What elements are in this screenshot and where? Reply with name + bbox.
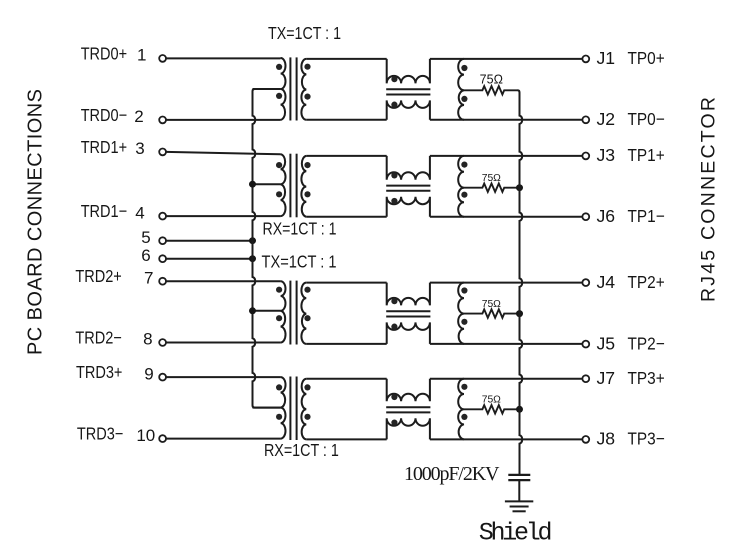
svg-text:10: 10 xyxy=(136,426,155,445)
transformer T3 center tap lead xyxy=(253,310,281,312)
pin 6 lead and pad xyxy=(141,246,256,265)
svg-text:J6: J6 xyxy=(597,206,616,226)
wire top rail ch1 xyxy=(430,155,583,157)
svg-text:TP0−: TP0− xyxy=(628,109,665,129)
svg-text:7: 7 xyxy=(144,268,153,287)
transformer T1 core xyxy=(290,57,296,120)
svg-text:TRD2+: TRD2+ xyxy=(75,266,121,286)
junction center tap T3 on bus xyxy=(249,307,256,314)
transformer T1 center tap lead xyxy=(253,88,281,90)
common-mode choke CM4 top winding xyxy=(387,379,430,402)
junction center tap T2 on bus xyxy=(249,181,256,188)
wire top rail ch3 xyxy=(430,378,583,380)
resistor R2 75ohm xyxy=(464,184,520,192)
svg-text:TP1+: TP1+ xyxy=(628,145,665,165)
svg-text:1000pF/2KV: 1000pF/2KV xyxy=(404,463,500,485)
pin J1 TP0+ pad and labels xyxy=(582,48,664,68)
transformer T2 primary winding xyxy=(281,154,286,216)
svg-text:TP2+: TP2+ xyxy=(628,272,665,292)
svg-text:5: 5 xyxy=(141,228,150,247)
svg-text:9: 9 xyxy=(144,364,153,383)
svg-text:RX=1CT : 1: RX=1CT : 1 xyxy=(264,440,339,460)
transformer T4 secondary winding xyxy=(301,379,306,440)
transformer T4 primary winding xyxy=(281,377,286,439)
pin 7 TRD2+ lead and pad xyxy=(75,266,280,287)
svg-text:J3: J3 xyxy=(597,145,616,165)
svg-text:8: 8 xyxy=(143,330,152,349)
svg-text:75Ω: 75Ω xyxy=(482,395,501,406)
svg-text:TP1−: TP1− xyxy=(628,206,665,226)
common-mode choke CM3 polarity dots xyxy=(391,298,397,330)
common-mode choke CM4 polarity dots xyxy=(391,394,397,426)
transformer T3 core xyxy=(290,281,296,345)
wire secondary bottom to choke ch2 xyxy=(306,343,386,345)
termination choke L1 winding xyxy=(458,59,464,120)
junction resistor R4 to shield bus xyxy=(516,406,523,413)
svg-text:TRD1−: TRD1− xyxy=(81,201,127,221)
wire capacitor to ground xyxy=(518,480,520,502)
transformer T2 center tap lead xyxy=(253,183,281,185)
wire secondary bottom to choke ch0 xyxy=(306,119,386,121)
svg-text:TX=1CT : 1: TX=1CT : 1 xyxy=(268,23,341,43)
resistor R4 value label 75ohm xyxy=(482,395,501,406)
pin 1 TRD0+ lead and pad xyxy=(81,43,281,64)
resistor R2 value label 75ohm xyxy=(482,173,501,184)
wire secondary bottom to choke ch1 xyxy=(306,216,386,218)
svg-text:75Ω: 75Ω xyxy=(482,173,501,184)
svg-text:6: 6 xyxy=(141,246,150,265)
termination choke L2 winding xyxy=(458,156,464,217)
pin J5 TP2&#8722; pad and labels xyxy=(582,333,664,353)
wire secondary top to choke ch3 xyxy=(306,378,386,380)
common-mode choke CM2 polarity dots xyxy=(391,172,397,204)
svg-text:75Ω: 75Ω xyxy=(480,73,503,87)
svg-text:TP3+: TP3+ xyxy=(628,368,665,388)
svg-text:TRD1+: TRD1+ xyxy=(81,137,127,157)
title PC BOARD CONNECTIONS (left, rotated) xyxy=(25,89,47,355)
transformer T4 center tap lead xyxy=(253,407,281,409)
common-mode choke CM1 polarity dots xyxy=(391,76,397,108)
label RX=1CT:1 (T2) xyxy=(263,219,337,239)
wire secondary top to choke ch2 xyxy=(306,282,386,284)
svg-text:3: 3 xyxy=(135,139,144,158)
svg-text:TRD0+: TRD0+ xyxy=(81,43,127,63)
termination choke L4 dots xyxy=(461,384,467,420)
label RX=1CT:1 (T4) xyxy=(264,440,339,460)
pin J3 TP1+ pad and labels xyxy=(582,145,664,165)
wire bottom rail ch0 xyxy=(430,119,583,121)
common-mode choke CM2 bottom winding xyxy=(387,197,430,217)
resistor R1 value label 75ohm xyxy=(480,73,503,87)
pin 8 TRD2- lead and pad xyxy=(75,328,280,349)
resistor R1 75ohm xyxy=(464,86,518,94)
svg-text:TP2−: TP2− xyxy=(628,333,665,353)
resistor R3 value label 75ohm xyxy=(482,299,501,310)
common-mode choke CM3 top winding xyxy=(387,283,430,306)
capacitor C1 1000pF/2KV xyxy=(508,475,530,480)
wire bottom rail ch2 xyxy=(430,343,583,345)
wire bottom rail ch3 xyxy=(430,438,583,440)
junction resistor R2 to shield bus xyxy=(516,184,523,191)
pin J8 TP3&#8722; pad and labels xyxy=(582,429,664,449)
wire secondary top to choke ch1 xyxy=(306,155,386,157)
common-mode choke CM3 core xyxy=(386,311,430,316)
label TX=1CT:1 (T3) xyxy=(262,252,337,272)
common-mode choke CM2 top winding xyxy=(387,156,430,180)
termination choke L2 dots xyxy=(461,162,467,198)
svg-text:TP3−: TP3− xyxy=(628,429,665,449)
transformer T2 secondary winding xyxy=(301,156,306,217)
svg-text:J5: J5 xyxy=(597,333,616,353)
transformer T1 primary winding xyxy=(281,58,286,120)
svg-text:PC BOARD CONNECTIONS: PC BOARD CONNECTIONS xyxy=(25,89,47,355)
transformer T1 polarity dots xyxy=(276,64,311,100)
common-mode choke CM1 top winding xyxy=(387,59,430,84)
transformer T2 core xyxy=(290,154,296,218)
pin 10 TRD3- lead and pad xyxy=(77,424,281,445)
svg-text:TRD3−: TRD3− xyxy=(77,424,123,444)
termination choke L4 winding xyxy=(458,379,464,440)
transformer T3 secondary winding xyxy=(301,283,306,344)
pin J2 TP0&#8722; pad and labels xyxy=(582,109,664,129)
termination choke L3 winding xyxy=(458,283,464,344)
node Shield label xyxy=(479,519,553,547)
termination choke L3 dots xyxy=(461,287,467,325)
svg-text:TRD0−: TRD0− xyxy=(81,105,127,125)
svg-text:TX=1CT : 1: TX=1CT : 1 xyxy=(262,252,337,272)
wire shield bus (vertical with crossover hops) xyxy=(518,90,523,475)
transformer T3 polarity dots xyxy=(276,287,311,322)
label TX=1CT:1 (T1) xyxy=(268,23,341,43)
svg-text:2: 2 xyxy=(134,107,143,126)
transformer T4 core xyxy=(290,377,296,441)
svg-text:Shield: Shield xyxy=(479,519,553,547)
svg-text:J8: J8 xyxy=(597,429,616,449)
common-mode choke CM4 core xyxy=(386,407,430,412)
wire secondary bottom to choke ch3 xyxy=(306,438,386,440)
common-mode choke CM1 bottom winding xyxy=(387,100,430,119)
transformer T1 secondary winding xyxy=(301,59,306,120)
wire top rail ch2 xyxy=(430,282,583,284)
resistor R4 75ohm xyxy=(464,405,520,413)
pin 4 TRD1- lead and pad xyxy=(81,201,281,222)
svg-text:RJ45 CONNECTOR: RJ45 CONNECTOR xyxy=(698,97,720,302)
svg-text:J2: J2 xyxy=(597,109,616,129)
svg-text:75Ω: 75Ω xyxy=(482,299,501,310)
svg-text:1: 1 xyxy=(137,46,146,65)
transformer T3 primary winding xyxy=(281,281,286,342)
wire top rail ch0 xyxy=(430,58,583,60)
svg-text:J1: J1 xyxy=(597,48,616,68)
ground (chassis/shield earth) xyxy=(505,501,533,511)
common-mode choke CM3 bottom winding xyxy=(387,322,430,344)
svg-text:TRD3+: TRD3+ xyxy=(76,362,122,382)
termination choke L1 dots xyxy=(461,65,467,102)
svg-text:RX=1CT : 1: RX=1CT : 1 xyxy=(263,219,337,239)
pin 2 TRD0- lead and pad xyxy=(81,105,281,126)
junction resistor R3 to shield bus xyxy=(516,310,523,317)
pin 3 TRD1+ lead and pad xyxy=(81,137,281,158)
svg-text:TRD2−: TRD2− xyxy=(75,328,121,348)
pin J6 TP1&#8722; pad and labels xyxy=(582,206,664,226)
common-mode choke CM2 core xyxy=(386,186,430,191)
transformer T4 polarity dots xyxy=(276,384,311,420)
wire center-tap bus (vertical with crossover hops) xyxy=(253,89,281,408)
wire secondary top to choke ch0 xyxy=(306,58,386,60)
capacitor C1 value label 1000pF/2KV xyxy=(404,463,500,485)
svg-text:J7: J7 xyxy=(597,368,616,388)
transformer T2 polarity dots xyxy=(276,162,311,197)
resistor R3 75ohm xyxy=(464,309,520,317)
pin J4 TP2+ pad and labels xyxy=(582,272,664,292)
svg-text:J4: J4 xyxy=(597,272,616,292)
common-mode choke CM4 bottom winding xyxy=(387,418,430,439)
title RJ45 CONNECTOR (right, rotated) xyxy=(698,97,720,302)
svg-text:4: 4 xyxy=(135,203,144,222)
pin 5 lead and pad xyxy=(141,228,256,247)
common-mode choke CM1 core xyxy=(386,89,430,94)
wire bottom rail ch1 xyxy=(430,216,583,218)
pin J7 TP3+ pad and labels xyxy=(582,368,664,388)
pin 9 TRD3+ lead and pad xyxy=(76,362,281,383)
svg-text:TP0+: TP0+ xyxy=(628,48,665,68)
